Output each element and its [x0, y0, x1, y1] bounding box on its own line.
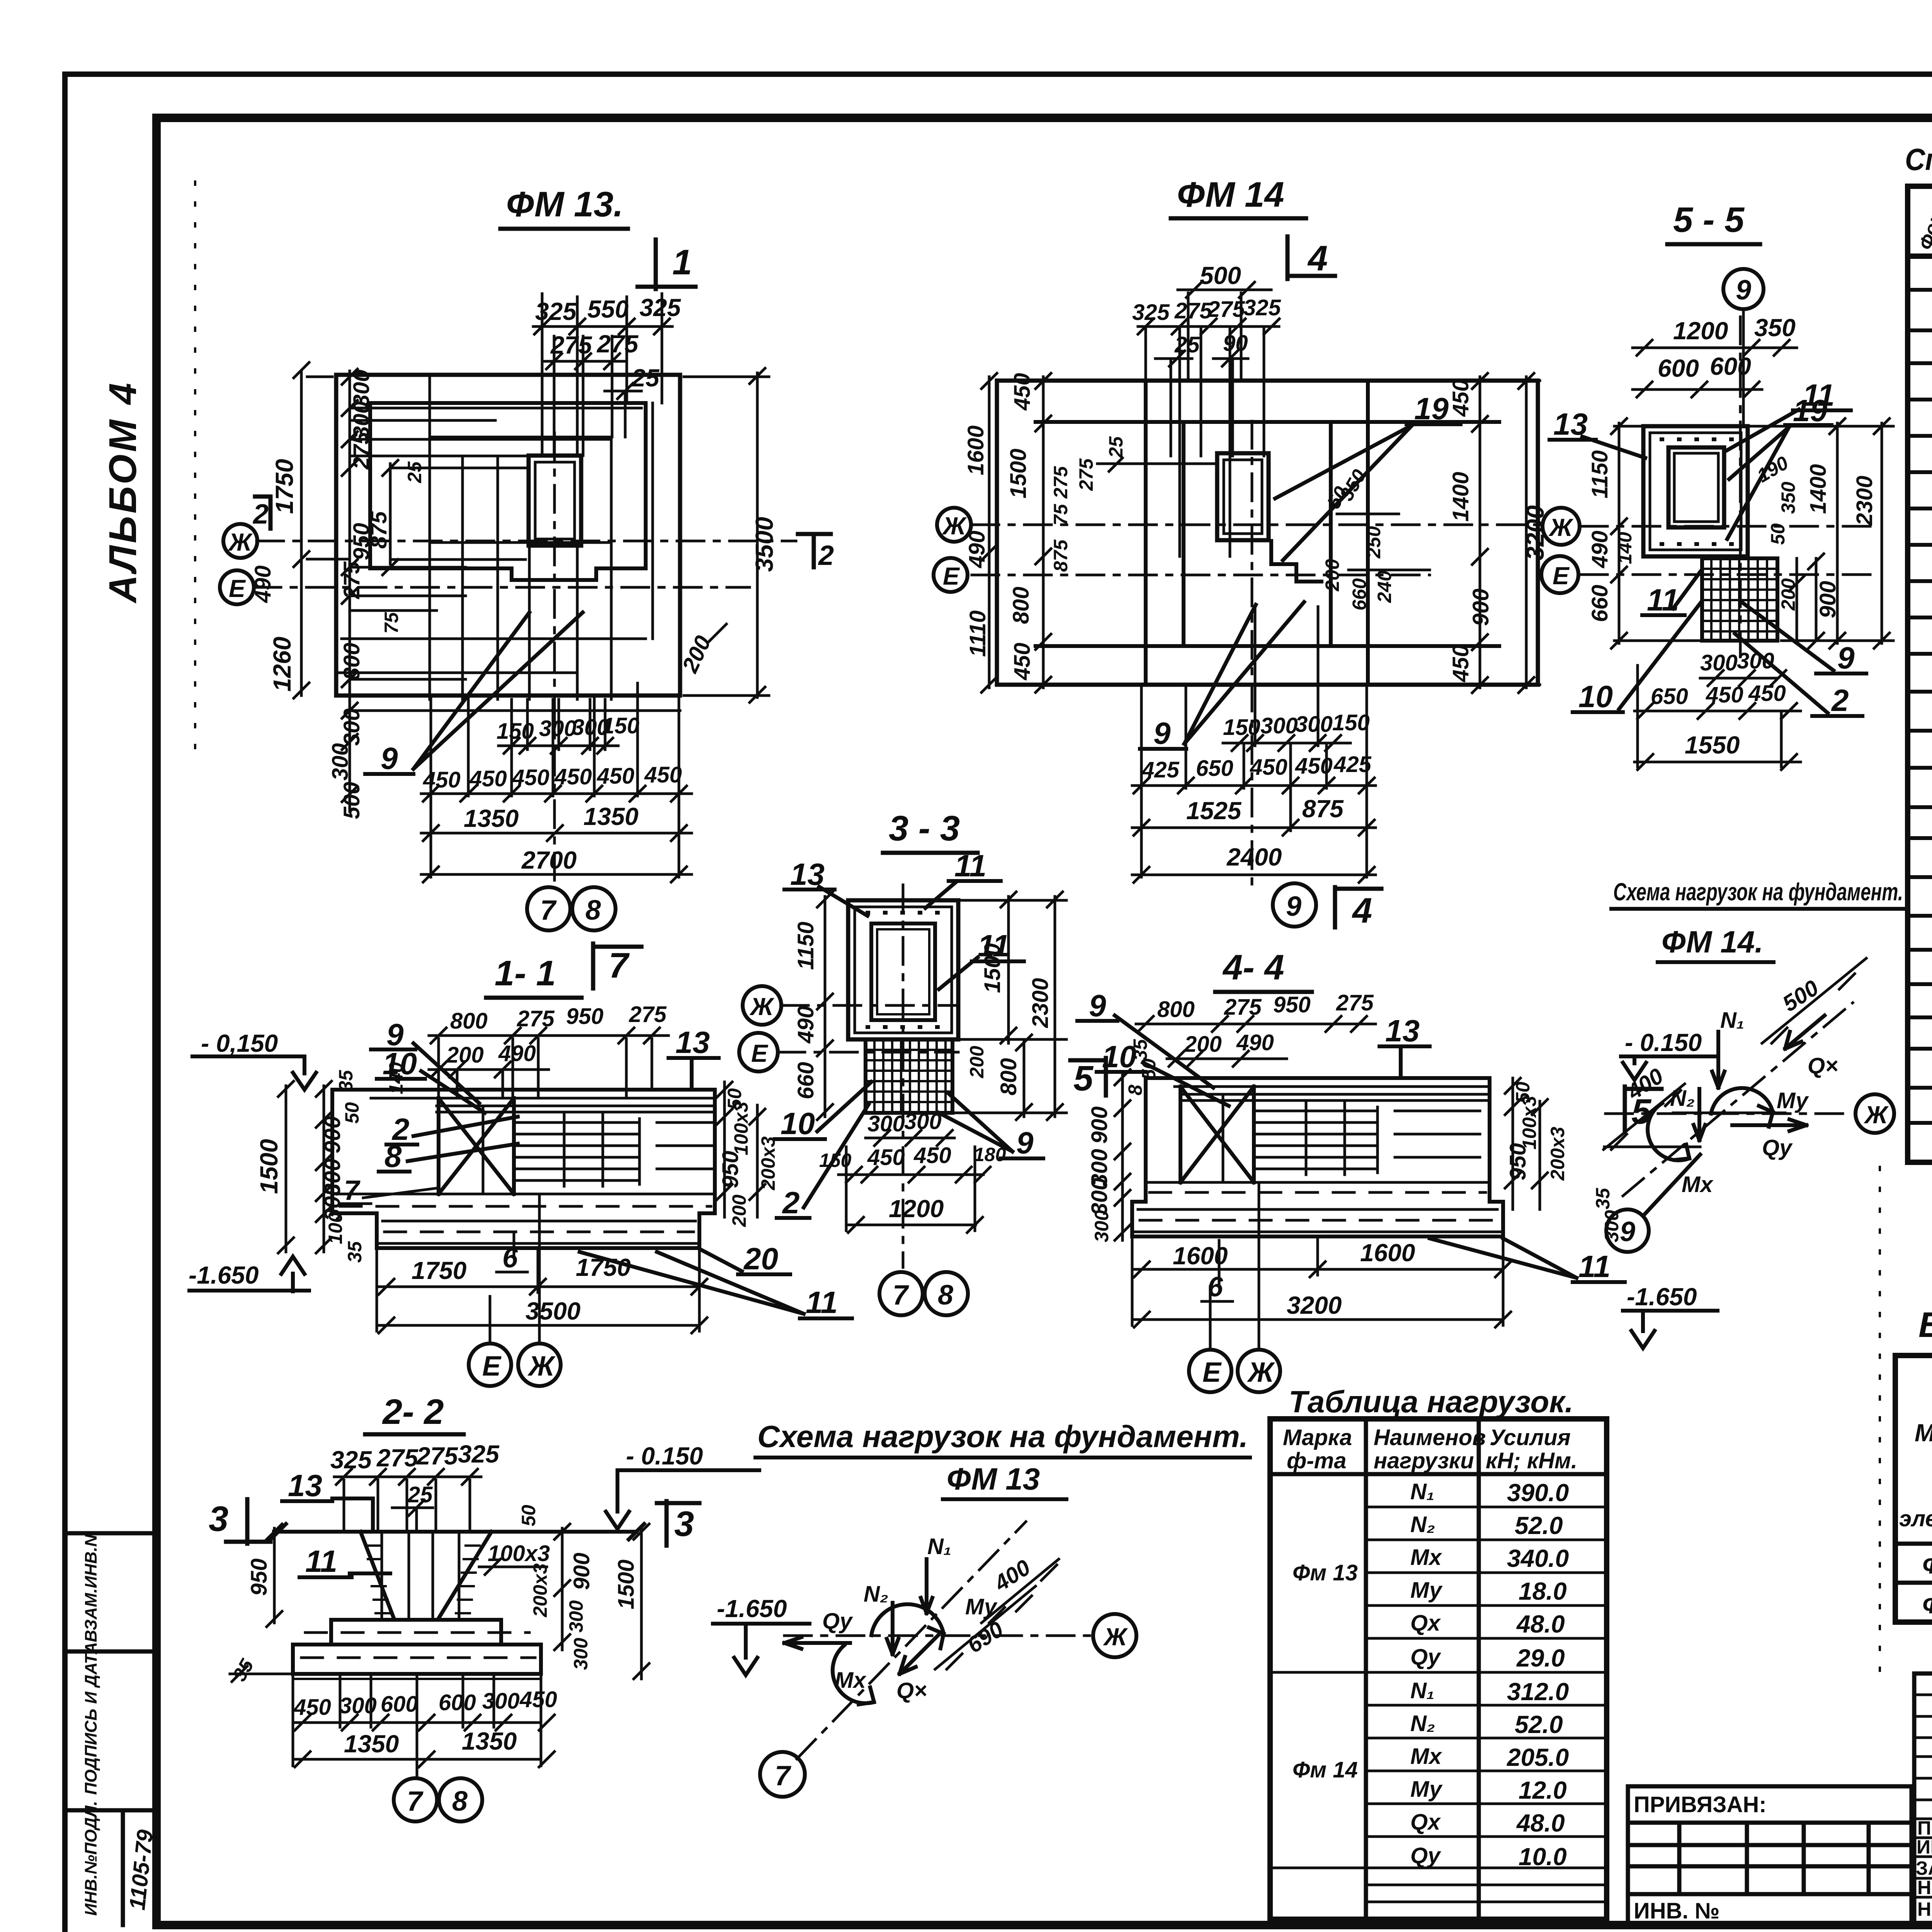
FM14 inner slab lines	[1036, 422, 1499, 646]
FM13 section mark 2 right	[798, 534, 834, 571]
svg-text:2: 2	[782, 1185, 800, 1220]
FM13 dim 875 25 75	[366, 460, 526, 634]
FM14 column section	[1217, 453, 1269, 540]
svg-text:10.0: 10.0	[1519, 1843, 1567, 1871]
svg-text:48.0: 48.0	[1516, 1809, 1565, 1837]
svg-text:ФМ 14.: ФМ 14.	[1662, 925, 1764, 959]
svg-text:325: 325	[1243, 295, 1281, 320]
svg-text:490: 490	[964, 531, 990, 568]
svg-text:950: 950	[1273, 992, 1311, 1017]
svg-text:11: 11	[305, 1544, 337, 1578]
svg-text:7: 7	[609, 946, 630, 985]
3-3 rebar dots	[867, 913, 938, 1027]
scheme FM14 title	[1611, 878, 1905, 962]
scheme FM14 moment Mu arc	[1711, 1088, 1809, 1127]
1-1 column with cross bracing	[439, 1098, 514, 1194]
svg-text:2300: 2300	[1028, 978, 1053, 1028]
5-5 axis circle Zh	[1543, 508, 1580, 545]
svg-text:8: 8	[585, 895, 601, 926]
svg-text:35: 35	[344, 1241, 366, 1263]
svg-text:1750: 1750	[270, 459, 298, 514]
svg-text:200: 200	[1777, 578, 1799, 611]
svg-text:52.0: 52.0	[1515, 1512, 1563, 1539]
svg-text:600: 600	[1710, 352, 1751, 380]
svg-text:2700: 2700	[521, 846, 577, 874]
svg-text:450: 450	[1250, 755, 1287, 780]
svg-text:6: 6	[502, 1243, 518, 1274]
svg-text:20: 20	[743, 1242, 778, 1276]
svg-text:600: 600	[1658, 354, 1699, 382]
scheme FM14 axis circle Zh	[1855, 1094, 1894, 1133]
1-1 top dims 200 490	[429, 1041, 549, 1077]
4-4 column with cross bracing	[1180, 1087, 1254, 1182]
5-5 label 10	[1573, 601, 1702, 714]
svg-text:140: 140	[385, 1062, 407, 1094]
specification table title	[1905, 142, 1932, 177]
svg-text:2: 2	[252, 499, 269, 530]
svg-text:НАЧ.ОТД: НАЧ.ОТД	[1917, 1898, 1932, 1920]
1-1 section mark 7	[593, 944, 641, 988]
scheme FM14 force N2	[1670, 1086, 1705, 1140]
svg-text:Усилия: Усилия	[1490, 1425, 1571, 1450]
svg-text:425: 425	[1333, 752, 1372, 777]
svg-text:8: 8	[938, 1280, 953, 1311]
svg-text:4- 4: 4- 4	[1222, 948, 1284, 987]
2-2 level -0.150	[606, 1442, 759, 1529]
svg-text:25: 25	[404, 461, 425, 483]
5-5 label 19 with leaders	[1727, 393, 1832, 545]
svg-text:Му: Му	[965, 1594, 998, 1619]
svg-text:7: 7	[775, 1760, 791, 1791]
scheme FM14 shear Qy	[1732, 1119, 1806, 1160]
svg-text:1400: 1400	[1448, 472, 1473, 522]
svg-text:250: 250	[1363, 526, 1384, 559]
svg-text:35: 35	[1129, 1039, 1151, 1061]
svg-text:1550: 1550	[1685, 731, 1740, 759]
5-5 mid right dims 200 900	[1777, 554, 1840, 648]
svg-text:9: 9	[381, 741, 398, 776]
svg-text:900: 900	[1087, 1106, 1112, 1144]
svg-text:1500: 1500	[1006, 449, 1031, 498]
svg-text:Ведомость расхода стали на эле: Ведомость расхода стали на элемент, кг.	[1918, 1305, 1932, 1345]
FM14 step detail	[1271, 541, 1321, 582]
1-1 labels 9 10 with leaders	[371, 1017, 485, 1113]
svg-text:ИНВ.№ПОДЛ.: ИНВ.№ПОДЛ.	[82, 1801, 100, 1916]
FM14 top dim 325 275 275 325	[1132, 295, 1281, 334]
svg-text:ИНВ. №: ИНВ. №	[1634, 1898, 1719, 1923]
svg-text:1150: 1150	[793, 922, 818, 970]
svg-text:1200: 1200	[1673, 317, 1728, 345]
svg-text:1500: 1500	[614, 1560, 639, 1609]
3-3 axis circle E	[739, 1033, 958, 1071]
svg-text:300: 300	[539, 716, 577, 741]
svg-text:3: 3	[209, 1499, 228, 1539]
svg-text:35: 35	[335, 1070, 357, 1092]
FM13 bottom extension lines	[431, 683, 679, 877]
FM13 top dimension 325 550 325	[533, 294, 681, 334]
svg-text:450: 450	[1295, 753, 1333, 779]
svg-text:11: 11	[978, 929, 1010, 963]
svg-text:450: 450	[867, 1145, 905, 1170]
svg-text:275: 275	[339, 561, 364, 599]
svg-text:450: 450	[913, 1143, 951, 1168]
svg-text:1500: 1500	[255, 1139, 283, 1194]
svg-text:950: 950	[566, 1004, 604, 1029]
scheme FM13 force N2	[864, 1582, 898, 1654]
svg-text:3200: 3200	[1287, 1291, 1342, 1319]
svg-text:13: 13	[288, 1468, 322, 1503]
svg-text:9: 9	[1620, 1216, 1635, 1247]
4-4 right dims	[1505, 1078, 1568, 1209]
4-4 rebar bundle	[1223, 1094, 1480, 1182]
svg-text:9: 9	[1736, 275, 1751, 306]
2-2 bottom dim 1350 1350	[293, 1727, 554, 1767]
svg-text:Q×: Q×	[1808, 1053, 1838, 1078]
title block: binding box	[1628, 1786, 1912, 1925]
svg-text:275: 275	[349, 432, 374, 470]
2-2 body top line	[270, 1524, 644, 1539]
3-3 hatch mesh	[866, 1039, 952, 1113]
svg-text:650: 650	[1651, 684, 1688, 709]
scheme FM13 dim 690 on diagonal	[935, 1586, 1036, 1669]
svg-text:13: 13	[1385, 1014, 1420, 1048]
svg-text:490: 490	[793, 1006, 818, 1044]
svg-text:Ж: Ж	[527, 1351, 556, 1382]
svg-text:9: 9	[1089, 988, 1106, 1023]
svg-text:9: 9	[1016, 1126, 1034, 1160]
svg-text:100х3: 100х3	[730, 1102, 752, 1155]
FM13 column section	[529, 456, 581, 546]
svg-text:390.0: 390.0	[1507, 1479, 1569, 1507]
svg-text:1110: 1110	[965, 611, 990, 657]
svg-text:Е: Е	[751, 1039, 769, 1067]
svg-text:300: 300	[1295, 712, 1333, 737]
svg-text:Му: Му	[1777, 1088, 1809, 1113]
svg-text:ЗАВ ГРУП.: ЗАВ ГРУП.	[1916, 1857, 1932, 1879]
4-4 level -0.150 right	[1621, 1029, 1716, 1080]
svg-text:550: 550	[587, 295, 629, 323]
4-4 mid and footing	[1132, 1078, 1503, 1236]
scheme FM13 title	[755, 1419, 1250, 1499]
svg-text:450: 450	[1448, 645, 1473, 682]
svg-text:N₁: N₁	[1410, 1678, 1434, 1703]
svg-text:205.0: 205.0	[1507, 1743, 1569, 1771]
svg-text:875: 875	[1050, 539, 1071, 572]
1-1 rebar bundle	[483, 1106, 713, 1194]
svg-text:50: 50	[518, 1505, 539, 1526]
svg-text:2400: 2400	[1226, 843, 1282, 871]
svg-text:800: 800	[339, 643, 364, 680]
4-4 title	[1215, 948, 1312, 992]
svg-text:кН; кНм.: кН; кНм.	[1486, 1448, 1577, 1473]
svg-text:- 0.150: - 0.150	[1625, 1029, 1702, 1056]
2-2 left dims 950 35	[228, 1524, 294, 1685]
svg-text:2: 2	[818, 540, 834, 571]
FM14 grid circle 9	[1273, 883, 1316, 927]
svg-text:275: 275	[376, 1444, 418, 1472]
svg-text:50: 50	[1767, 523, 1789, 545]
2-2 section mark 3 right	[657, 1501, 699, 1546]
load table data	[1293, 1479, 1569, 1871]
svg-text:300: 300	[1087, 1178, 1112, 1215]
svg-text:Ж: Ж	[749, 993, 775, 1020]
FM14 axis lines	[972, 421, 1540, 885]
svg-text:275: 275	[1207, 297, 1245, 322]
1-1 labels 20 11	[580, 1242, 852, 1320]
svg-text:325: 325	[639, 294, 681, 321]
1-1 top dims 800 275 950 275	[429, 1002, 668, 1043]
3-3 labels 10 2 left	[775, 1082, 871, 1220]
svg-text:Мх: Мх	[835, 1668, 867, 1693]
5-5 bottom dim 1550	[1634, 665, 1801, 770]
svg-text:7: 7	[344, 1175, 361, 1206]
svg-text:Е: Е	[1202, 1357, 1222, 1388]
svg-text:300: 300	[1091, 1210, 1112, 1242]
1-1 body top slab lines	[332, 1090, 715, 1112]
FM13 section mark 2 left	[252, 497, 270, 530]
svg-text:4: 4	[1352, 891, 1372, 930]
svg-text:Марка: Марка	[1915, 1419, 1932, 1447]
svg-text:900: 900	[1468, 588, 1493, 626]
svg-text:N₂: N₂	[864, 1582, 888, 1607]
svg-text:275: 275	[1224, 995, 1262, 1020]
svg-text:12.0: 12.0	[1519, 1776, 1567, 1804]
3-3 grid circles 7 8	[879, 1272, 968, 1315]
2-2 right dims	[479, 1505, 649, 1679]
4-4 body top slab lines	[1146, 1078, 1490, 1100]
svg-text:-1.650: -1.650	[717, 1595, 787, 1622]
5-5 grid circle 9	[1723, 269, 1764, 426]
svg-text:Е: Е	[943, 562, 960, 590]
svg-text:-1.650: -1.650	[1627, 1283, 1697, 1311]
3-3 labels 13 11 top	[784, 849, 1001, 916]
svg-text:9: 9	[1153, 716, 1171, 750]
svg-text:элемента: элемента	[1899, 1506, 1932, 1531]
svg-text:Наименов: Наименов	[1374, 1425, 1486, 1450]
svg-text:Е: Е	[482, 1351, 502, 1382]
svg-text:1600: 1600	[963, 425, 988, 475]
FM13 top dimension 275 275	[545, 330, 639, 369]
specification table header	[1915, 169, 1932, 253]
5-5 label 11 top	[1727, 378, 1851, 450]
FM14 right dim chains	[1448, 373, 1549, 693]
svg-text:600: 600	[439, 1690, 476, 1715]
svg-text:Ж: Ж	[1864, 1101, 1889, 1129]
3-3 inner column	[871, 923, 935, 1020]
svg-text:Схема нагрузок на фундамент.: Схема нагрузок на фундамент.	[757, 1419, 1248, 1454]
FM14 axis circle Zh	[937, 508, 971, 542]
FM13 left dim chain 300 300 275 950 / 275 800 300 300 500	[250, 369, 374, 819]
FM14 axis circle E	[934, 558, 968, 592]
svg-text:490: 490	[250, 565, 276, 603]
svg-text:7: 7	[407, 1786, 423, 1817]
svg-text:490: 490	[498, 1041, 536, 1066]
svg-text:200х3: 200х3	[529, 1563, 551, 1617]
5-5 axis circle E	[1541, 556, 1578, 593]
svg-text:100х3: 100х3	[1519, 1096, 1540, 1150]
svg-text:N₂: N₂	[1410, 1711, 1435, 1736]
scheme FM13 moment Mx arc	[833, 1645, 874, 1704]
scheme FM13 shear Qy	[784, 1609, 853, 1649]
svg-text:500: 500	[1200, 262, 1241, 289]
FM14 bottom dim 2400	[1132, 843, 1376, 883]
svg-text:ПОДПИСЬ И ДАТА: ПОДПИСЬ И ДАТА	[82, 1642, 100, 1795]
1-1 level -1.650	[189, 1257, 309, 1291]
FM13 bottom dim 150 300 300 150	[497, 713, 639, 753]
svg-text:3: 3	[674, 1504, 694, 1544]
FM14 top dims 25 90	[1155, 331, 1248, 366]
4-4 bottom dim 1600 1600	[1132, 1239, 1511, 1325]
svg-text:900: 900	[569, 1553, 594, 1590]
svg-text:Н КОНТР.: Н КОНТР.	[1917, 1877, 1932, 1898]
scheme FM13 force N1	[921, 1534, 951, 1613]
svg-text:1400: 1400	[1806, 464, 1831, 514]
svg-text:Спецификация монолитных фундам: Спецификация монолитных фундаментов ФМ 1…	[1905, 142, 1932, 177]
svg-text:1- 1: 1- 1	[495, 954, 556, 993]
2-2 grid circles 7 8	[394, 1762, 482, 1821]
svg-text:1600: 1600	[1360, 1239, 1415, 1267]
2-2 bottom dims 450 300 600 600 300 450	[293, 1676, 557, 1766]
5-5 axis lines	[1580, 317, 1874, 657]
svg-text:Ж: Ж	[1548, 514, 1574, 541]
2-2 title	[365, 1392, 464, 1434]
4-4 level -1.650 right	[1592, 1187, 1718, 1348]
svg-text:300: 300	[328, 743, 353, 781]
svg-text:ФМ 13.: ФМ 13.	[506, 185, 623, 224]
FM14 left dim chains	[963, 373, 1217, 692]
svg-text:1750: 1750	[576, 1253, 631, 1281]
svg-text:Фм 14: Фм 14	[1293, 1757, 1358, 1782]
svg-text:нагрузки: нагрузки	[1374, 1448, 1474, 1473]
FM14 bottom dim 1525 875	[1132, 795, 1376, 835]
svg-text:Qу: Qу	[1762, 1135, 1793, 1160]
svg-text:Qх: Qх	[1410, 1611, 1441, 1636]
5-5 label 13	[1549, 407, 1645, 458]
title block: signature table	[1914, 1673, 1932, 1925]
svg-text:N₁: N₁	[1410, 1479, 1434, 1504]
FM13 top dimension 25	[605, 364, 660, 399]
FM14 top dim 500	[1178, 262, 1271, 298]
svg-text:50: 50	[1138, 1058, 1160, 1080]
svg-text:Ж: Ж	[1247, 1357, 1275, 1388]
svg-text:7: 7	[540, 895, 557, 926]
scheme FM14 dim 500 on diagonal	[1762, 958, 1866, 1043]
4-4 left dims	[1087, 1039, 1160, 1242]
1-1 labels 2 8 7	[340, 1112, 518, 1206]
scheme FM13 grid circle 7	[760, 1752, 805, 1797]
svg-text:Qу: Qу	[822, 1609, 853, 1634]
svg-text:300: 300	[570, 1638, 592, 1670]
svg-text:ФМ 13: ФМ 13	[1922, 1551, 1932, 1579]
5-5 labels 9 2 lower right	[1735, 603, 1866, 718]
svg-text:9: 9	[1837, 641, 1855, 675]
1-1 bottom dim 3500	[377, 1297, 707, 1333]
FM13 label 9 with leaders	[365, 612, 583, 776]
2-2 trapezoid column	[361, 1532, 492, 1619]
fold marks	[195, 182, 1880, 1673]
svg-text:13: 13	[675, 1025, 710, 1060]
1-1 right dims	[717, 1082, 779, 1227]
svg-text:300: 300	[1700, 650, 1738, 675]
svg-text:3500: 3500	[526, 1297, 580, 1325]
svg-text:Мх: Мх	[1410, 1744, 1442, 1769]
5-5 label 11 lower	[1642, 572, 1700, 617]
FM13 plan outer outline	[336, 375, 680, 696]
svg-text:312.0: 312.0	[1507, 1678, 1569, 1706]
svg-text:11: 11	[1647, 583, 1679, 617]
svg-text:Мх: Мх	[1682, 1172, 1714, 1197]
svg-text:1: 1	[672, 243, 692, 282]
svg-text:75: 75	[381, 612, 402, 634]
svg-text:950: 950	[247, 1558, 272, 1596]
svg-text:875: 875	[1302, 795, 1344, 823]
3-3 label 11 right	[939, 929, 1024, 989]
svg-text:25: 25	[1105, 436, 1127, 458]
svg-text:5: 5	[1073, 1059, 1094, 1098]
svg-text:4: 4	[1307, 239, 1328, 278]
4-4 label 11 right	[1430, 1238, 1625, 1284]
FM13 axis lines	[254, 433, 796, 885]
scheme FM14 shear Qx	[1785, 1015, 1838, 1078]
FM13 plan inner step outline	[370, 403, 646, 580]
FM13 axis circle E	[220, 570, 254, 604]
1-1 axis circles E Zh bottom	[469, 1196, 561, 1386]
FM13 right dim 3500	[684, 368, 778, 702]
scheme FM14 main diagonal	[1623, 1003, 1853, 1196]
svg-text:5 - 5: 5 - 5	[1673, 200, 1745, 240]
svg-text:25: 25	[631, 364, 660, 392]
svg-text:200: 200	[1321, 559, 1343, 592]
svg-text:ИНЖ.IКАТ: ИНЖ.IКАТ	[1917, 1836, 1932, 1858]
3-3 left dims	[793, 892, 833, 1120]
5-5 rebar dots	[1662, 439, 1732, 544]
svg-text:200: 200	[446, 1043, 484, 1068]
svg-text:1350: 1350	[464, 804, 519, 832]
svg-text:1350: 1350	[583, 803, 638, 830]
svg-text:450: 450	[1448, 379, 1473, 417]
svg-text:200: 200	[728, 1194, 750, 1227]
svg-text:N₁: N₁	[1720, 1008, 1744, 1033]
svg-text:ФМ 14: ФМ 14	[1922, 1591, 1932, 1619]
svg-text:8: 8	[384, 1139, 402, 1173]
svg-text:240: 240	[1374, 570, 1395, 603]
svg-text:275: 275	[416, 1442, 458, 1470]
FM13 grid circles 7 8	[527, 887, 616, 930]
4-4 label 6 and dim 3200	[1132, 1240, 1511, 1327]
svg-text:340.0: 340.0	[1507, 1544, 1569, 1572]
svg-text:950: 950	[718, 1151, 743, 1188]
svg-text:Qу: Qу	[1410, 1645, 1441, 1670]
FM13 title	[500, 185, 628, 229]
album label	[101, 381, 145, 604]
FM13 label 200	[677, 624, 726, 677]
svg-text:275: 275	[629, 1002, 667, 1027]
svg-text:150: 150	[497, 719, 534, 744]
3-3 bottom dim 300 300	[866, 1109, 954, 1146]
3-3 label 9 right	[939, 1094, 1043, 1160]
svg-text:Фм 13: Фм 13	[1293, 1560, 1358, 1585]
svg-text:450: 450	[1748, 681, 1786, 706]
5-5 bottom dim 300 300	[1700, 648, 1786, 686]
svg-text:35: 35	[1592, 1187, 1614, 1209]
5-5 column	[1668, 447, 1724, 527]
svg-text:2: 2	[1831, 683, 1849, 718]
steel consumption table grid	[1895, 1355, 1932, 1622]
2-2 section mark 3 left	[209, 1499, 270, 1544]
FM14 label 9 with leaders	[1140, 602, 1304, 750]
FM14 label 19 with leaders	[1275, 391, 1461, 560]
svg-text:660: 660	[793, 1062, 818, 1099]
